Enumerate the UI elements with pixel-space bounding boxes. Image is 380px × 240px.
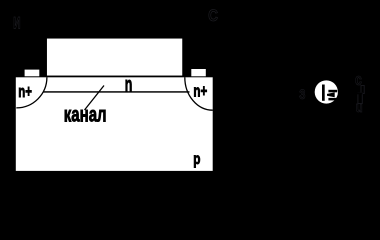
drain lead wire up: [361, 86, 364, 94]
symbol gate arrow: [327, 92, 335, 97]
svg-text:p: p: [193, 151, 200, 168]
source lead wire down: [358, 93, 362, 104]
channel pointer line: [85, 86, 105, 111]
symbol drain lead: [328, 90, 337, 93]
drain contact stub: [191, 69, 206, 76]
svg-text:канал: канал: [64, 103, 107, 126]
wire from symbol to right: [338, 93, 363, 95]
channel bottom boundary line: [43, 91, 190, 92]
svg-text:n+: n+: [193, 82, 207, 101]
symbol source lead: [328, 98, 337, 101]
gate wire to symbol: [307, 93, 316, 95]
svg-text:И: И: [13, 14, 20, 33]
svg-text:С: С: [208, 6, 218, 25]
left p-n junction arc: [16, 77, 47, 108]
JFET symbol circle: [315, 80, 338, 103]
symbol channel bar: [322, 85, 325, 101]
source contact stub: [25, 70, 40, 77]
gate plate rectangle (top electrode): [46, 38, 183, 77]
svg-text:n+: n+: [18, 82, 32, 101]
svg-text:З: З: [299, 87, 305, 102]
right p-n junction arc: [185, 77, 213, 110]
p-substrate body rectangle: [15, 76, 214, 172]
svg-text:n: n: [125, 74, 133, 97]
